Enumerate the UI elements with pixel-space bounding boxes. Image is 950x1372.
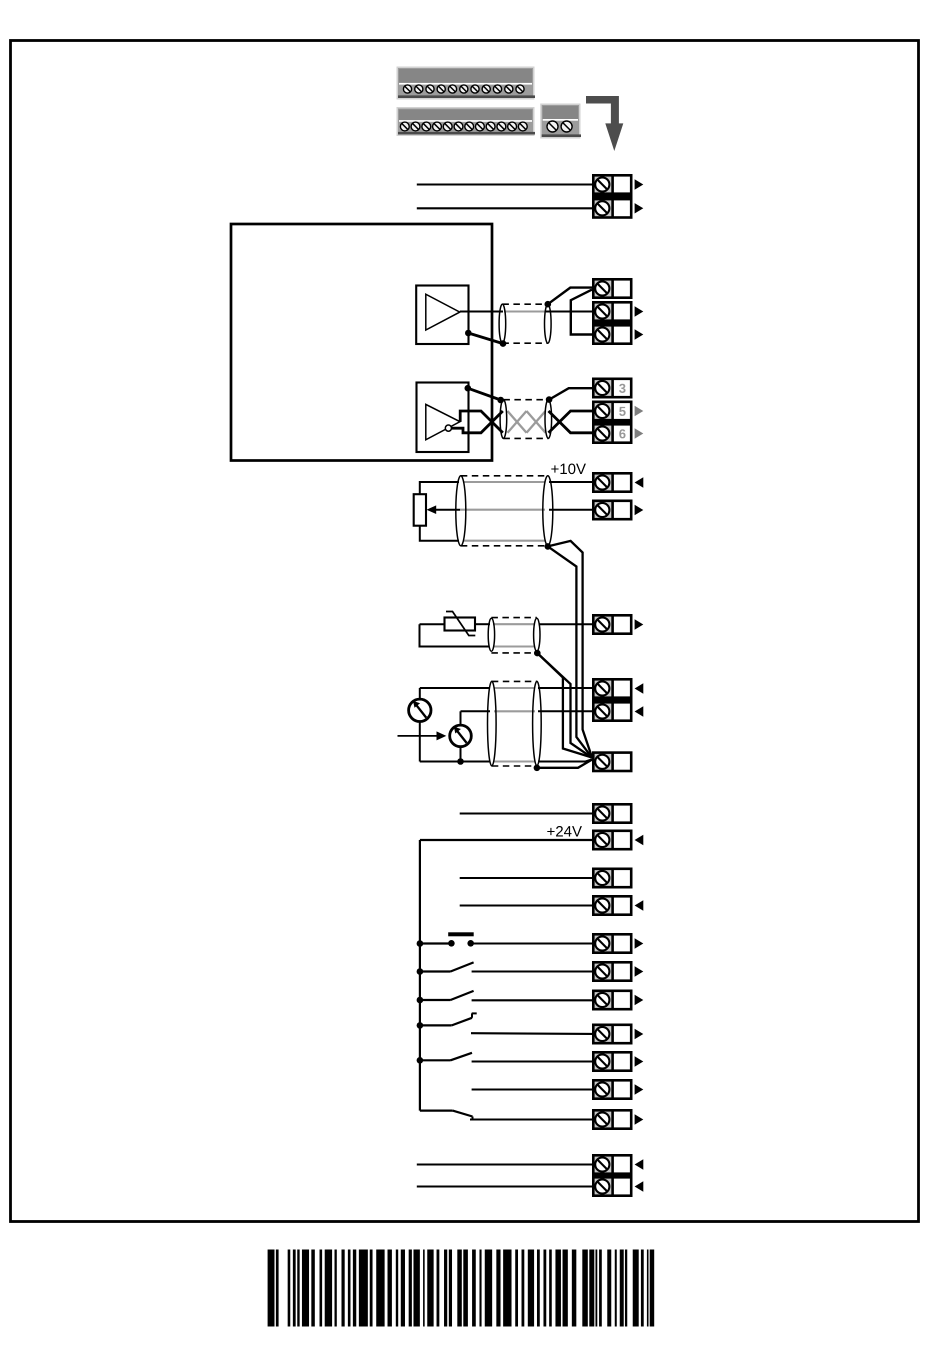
shield 5 drain wire [534, 760, 592, 772]
wire board to shield 2 [465, 385, 505, 403]
arrow in +10V terminal [635, 477, 644, 487]
+10V terminal [593, 473, 631, 491]
shield cable 2 (ellipses and dashes) [500, 400, 551, 439]
thermistor RT1 [445, 612, 476, 636]
terminal digital 8 [593, 1025, 631, 1043]
wiper arrow and wire [427, 505, 461, 514]
thermistor left loop wire [420, 624, 490, 646]
arrow out digital 9 [635, 1056, 644, 1066]
switch S2 [417, 962, 592, 974]
arrow in +24V terminal [635, 835, 644, 845]
common (0V) terminal [593, 753, 631, 771]
terminal digital 1 [593, 804, 631, 822]
arrow out digital 11 [635, 1114, 644, 1124]
shield cable 4 (thermistor cable) [488, 618, 540, 653]
terminal digital 5 [593, 934, 631, 952]
terminal digital 4 [593, 896, 631, 914]
terminal strip photo (12-pole, lower) [397, 107, 536, 136]
arrow in AI2 [635, 683, 644, 693]
conductor wire 1 (to AI2 terminal) [420, 687, 490, 689]
terminal pair RS485 [592, 1155, 633, 1195]
wire wiper to AI terminal [549, 509, 592, 511]
wire +24V from bus [420, 839, 592, 841]
shield 4 drain wires [534, 650, 592, 758]
arrow out digital 7 [635, 995, 644, 1005]
terminal pair (relay outputs) [592, 175, 633, 217]
twisted pair inside shield (gray crossings) [508, 411, 546, 433]
shield cable 1 (screen with ellipses) [499, 304, 551, 343]
pot top wire [420, 482, 459, 494]
bent down-arrow (insert direction) [586, 96, 623, 151]
terminal +24V [593, 831, 631, 849]
gray arrow out terminal 6 [635, 428, 644, 438]
wire thermistor cable to terminal [539, 623, 593, 625]
wire to relay terminal 2 [417, 207, 592, 209]
wire to relay out terminal [460, 812, 592, 814]
thermistor terminal [593, 615, 631, 633]
terminal digital 9 [593, 1052, 631, 1070]
terminal digital 3 [593, 869, 631, 887]
op-amp A1 (analog output buffer) [416, 286, 468, 345]
arrow out terminal 2 [635, 203, 644, 213]
gray arrow out terminal 5 [635, 406, 644, 416]
barcode [268, 1250, 655, 1327]
arrow out digital 6 [635, 966, 644, 976]
AI2/AI3 terminal pair [592, 679, 633, 720]
switch S5 [417, 1053, 592, 1064]
wire +10V to terminal [549, 481, 592, 483]
push button S1 [417, 932, 592, 947]
terminal digital 10 [593, 1080, 631, 1098]
arrow out AO terminal 3 [635, 329, 644, 339]
wire shield 2 to terminal 3 [546, 388, 592, 403]
meter bus wires [420, 688, 461, 762]
arrow out digital 5 [635, 938, 644, 948]
jumper wire terminal 1 to terminal 3 [571, 290, 592, 335]
analog output conductor wire [460, 311, 503, 313]
arrow out digital 10 [635, 1084, 644, 1094]
terminal group AO (3 terminals) [592, 279, 633, 343]
arrow in AI3 [635, 706, 644, 716]
twisted pair wire B (right black crossing to terminals 5/6) [549, 411, 593, 433]
arrow out AO terminal 2 [635, 306, 644, 316]
wire amp ground to shield [465, 330, 506, 347]
arrow out digital 8 [635, 1029, 644, 1039]
wire digital 3 [460, 877, 592, 879]
shield cable 3 (pot cable) [456, 476, 553, 546]
terminal block photo (2-pole) [540, 104, 581, 139]
twisted pair wire A (black segments) [451, 411, 503, 433]
arrow in RS485 B [635, 1181, 644, 1191]
wire digital 10 (unconnected input) [472, 1088, 592, 1090]
terminal digital 6 [593, 962, 631, 980]
switch S6 (bottom, from bus corner) [420, 1111, 592, 1120]
bottom common wire [420, 758, 592, 765]
switch S3 [417, 991, 592, 1003]
pot bottom wire [420, 526, 459, 541]
wire to relay terminal 1 [417, 183, 592, 185]
inverter gate A2 (line driver) [417, 383, 469, 453]
terminal digital 7 [593, 991, 631, 1009]
conductor wire 2 (to AI3 terminal) [461, 710, 491, 712]
thermistor to cable wire [475, 623, 490, 625]
input arrow into P2 [398, 731, 447, 740]
terminal strip photo (11-pole, upper) [397, 67, 536, 100]
wire RS485 B [417, 1185, 592, 1187]
label +24V [547, 828, 554, 835]
arrow out terminal 1 [635, 179, 644, 189]
wire digital 4 [460, 904, 592, 906]
AI terminal [593, 501, 631, 519]
shield cable 5 (meter cable) [488, 681, 542, 766]
label +10V [551, 465, 558, 472]
arrow in digital 4 [635, 900, 644, 910]
meter P2 (mA source) [450, 725, 472, 747]
wire shield to terminal (top) [545, 288, 593, 308]
arrow in RS485 A [635, 1159, 644, 1169]
potentiometer R1 [414, 494, 426, 526]
terminal group 3/5/6 [592, 379, 633, 443]
thermistor top wire [420, 623, 445, 625]
meter P1 (mA source) [409, 699, 431, 721]
wire RS485 A [417, 1163, 592, 1165]
switch S4 (with end stop) [417, 1013, 592, 1034]
+24V bus wire (vertical) [419, 840, 421, 1111]
shield 3 drain wires going down [545, 541, 593, 758]
control board outline box [231, 224, 492, 461]
arrow out AI terminal [635, 505, 644, 515]
arrow out thermistor terminal [635, 619, 644, 629]
terminal digital 11 [593, 1110, 631, 1128]
